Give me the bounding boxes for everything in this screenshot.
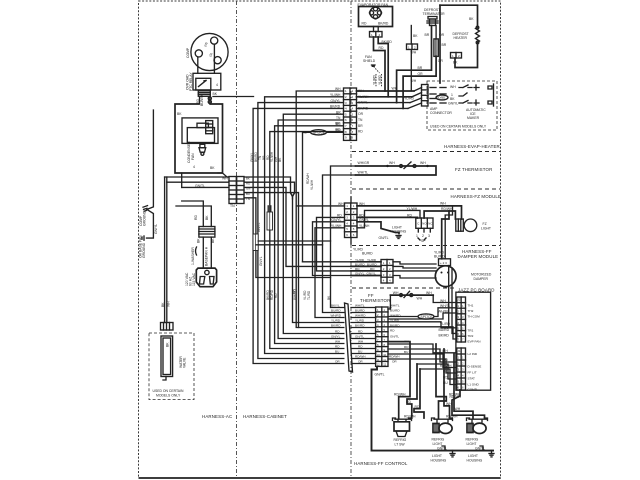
svg-text:BK/RD: BK/RD (331, 323, 341, 327)
svg-text:COMP: COMP (468, 388, 477, 392)
svg-text:J1: J1 (458, 349, 461, 353)
svg-text:C: C (417, 222, 419, 226)
svg-text:DAMPER MODULE: DAMPER MODULE (458, 254, 499, 259)
svg-text:WH/RD: WH/RD (331, 313, 342, 317)
svg-text:REFRIG: REFRIG (466, 438, 479, 442)
wires evap fan down (374, 37, 393, 97)
dashed separator 1 (352, 151, 500, 153)
fan shield (363, 55, 382, 88)
svg-text:WH/TL: WH/TL (440, 304, 451, 308)
damper motor (435, 259, 492, 287)
wire FZ row3 RD to door switch (357, 207, 418, 218)
svg-text:MODELS ONLY: MODELS ONLY (156, 394, 181, 398)
svg-text:OR: OR (358, 359, 363, 363)
svg-text:+ 2 3: + 2 3 (440, 261, 447, 265)
section label HARNESS-CABINET (243, 414, 287, 419)
svg-text:HARNESS-FZ MODULE: HARNESS-FZ MODULE (451, 194, 502, 199)
wires basepan heater feed (176, 201, 211, 227)
svg-text:BK/YL: BK/YL (331, 303, 340, 307)
svg-text:WH: WH (450, 85, 456, 89)
svg-text:LIGHT: LIGHT (467, 442, 477, 446)
wire compressor S terminal to PTC (197, 57, 199, 73)
defrost terminator (423, 8, 446, 26)
svg-text:SPLICE: SPLICE (313, 131, 326, 135)
svg-text:TH2: TH2 (468, 309, 474, 313)
svg-text:BU/RD: BU/RD (331, 308, 341, 312)
svg-text:STAT: STAT (468, 377, 476, 381)
divider harness-cabinet / right sections (350, 1, 352, 478)
svg-text:REFRIG: REFRIG (432, 438, 445, 442)
wire gn/tl ground run (372, 366, 495, 450)
svg-text:RD: RD (335, 329, 340, 333)
section label HARNESS-FF CONTROL (354, 461, 408, 466)
dashed box ice maker (427, 81, 497, 130)
wire BK from PTC to cabinet bundle (213, 96, 254, 98)
svg-text:BU/RD: BU/RD (390, 308, 400, 312)
inline connector bar 1 (267, 206, 273, 230)
svg-text:GN/TL: GN/TL (390, 335, 399, 339)
svg-text:RD/WH: RD/WH (441, 207, 453, 211)
wire FZ row5 YL/WH to door switch (357, 210, 420, 227)
svg-text:RD: RD (335, 128, 340, 132)
svg-text:YL/RD: YL/RD (331, 318, 341, 322)
inline connectors on condenser fan feed (208, 96, 211, 104)
svg-text:J2: J2 (458, 298, 461, 302)
svg-text:LIGHT: LIGHT (433, 442, 443, 446)
svg-text:MAKER: MAKER (467, 116, 480, 120)
svg-text:10: 10 (377, 353, 380, 357)
svg-text:VALVE: VALVE (183, 357, 187, 368)
svg-text:WH: WH (411, 79, 417, 83)
svg-text:WH: WH (442, 349, 448, 353)
svg-text:YL/RD: YL/RD (378, 74, 382, 85)
connector power cord lower (161, 323, 174, 331)
svg-text:GN/TL: GN/TL (195, 184, 205, 188)
svg-text:BR: BR (335, 122, 340, 126)
svg-text:BK: BK (413, 34, 418, 38)
svg-text:HEATER: HEATER (454, 36, 468, 40)
svg-text:4: 4 (216, 83, 218, 87)
wire condenser WH out to connector (218, 173, 229, 177)
connector below PTC (196, 91, 218, 106)
ff thermistor symbol (389, 291, 457, 309)
svg-text:GN/YL: GN/YL (331, 334, 341, 338)
damper connector wires + labels (351, 258, 381, 276)
svg-text:BU/RD: BU/RD (355, 262, 365, 266)
wire FZ row1 WH to bulb (296, 202, 461, 220)
svg-text:RD/WH: RD/WH (394, 393, 406, 397)
svg-text:RD/WH: RD/WH (450, 395, 462, 399)
svg-text:BU/RD: BU/RD (367, 262, 377, 266)
wire condenser to connector row3 (182, 186, 229, 188)
svg-text:PTC RELAY: PTC RELAY (189, 72, 193, 91)
svg-text:LIGHT: LIGHT (432, 454, 442, 458)
svg-text:BK/RD: BK/RD (378, 22, 389, 26)
wires damper connector to motor (393, 262, 436, 278)
svg-text:12: 12 (377, 363, 380, 367)
svg-text:YL/RD: YL/RD (373, 74, 377, 85)
svg-text:YL/RD: YL/RD (355, 258, 365, 262)
svg-text:WH/TL: WH/TL (358, 171, 369, 175)
bu/bk oval label (0, 0, 1, 1)
connector FF control 12x2 (376, 307, 388, 367)
svg-text:DAMPER: DAMPER (474, 277, 489, 281)
svg-text:FF LIT: FF LIT (468, 371, 477, 375)
ff row labels right of parallelogram (355, 303, 366, 363)
svg-text:RD/WH: RD/WH (389, 355, 399, 359)
svg-text:BK/RD: BK/RD (439, 333, 450, 337)
svg-text:COMP: COMP (186, 47, 190, 58)
svg-text:NC: NC (428, 222, 432, 226)
connector FZ module 6x2 (345, 197, 358, 244)
lamp3 refrig light (466, 418, 488, 446)
svg-text:GN/YL: GN/YL (448, 102, 458, 106)
svg-text:REFRIG: REFRIG (394, 438, 407, 442)
wires into amp connector (392, 87, 422, 109)
svg-text:WH: WH (389, 161, 395, 165)
wires damper to PC board J2 (449, 266, 457, 334)
svg-text:WH: WH (426, 291, 432, 295)
ff parallelogram bundle connector (345, 303, 353, 372)
svg-text:YL/WH: YL/WH (331, 224, 342, 228)
svg-text:TN: TN (230, 204, 235, 208)
svg-text:HOUSING: HOUSING (431, 459, 447, 463)
svg-text:GN/YL: GN/YL (259, 256, 263, 266)
svg-text:GN/TL: GN/TL (375, 373, 385, 377)
ice maker switch symbols (459, 84, 494, 106)
svg-text:WH: WH (417, 297, 423, 301)
svg-text:THERMISTOR: THERMISTOR (360, 298, 390, 303)
svg-text:BK: BK (469, 17, 474, 21)
svg-text:EVP FAN: EVP FAN (468, 340, 481, 344)
label fz thermistor (455, 167, 492, 172)
svg-text:GN/YL: GN/YL (332, 218, 342, 222)
svg-text:OR: OR (392, 360, 397, 364)
svg-text:TL/RD: TL/RD (307, 290, 311, 300)
svg-text:L2 IND: L2 IND (468, 352, 478, 356)
svg-text:RD: RD (335, 344, 340, 348)
svg-text:RD: RD (358, 344, 363, 348)
svg-text:CONNECTOR: CONNECTOR (430, 111, 452, 115)
splice on row2 (388, 304, 457, 319)
label harness-fz module (451, 194, 502, 199)
svg-text:LIGHT: LIGHT (468, 454, 478, 458)
cabinet bundle staircase from J-cabinet (253, 91, 344, 364)
svg-text:115 VAC: 115 VAC (192, 272, 196, 286)
svg-text:YL/RD: YL/RD (355, 318, 365, 322)
svg-text:BK: BK (213, 92, 218, 96)
condenser fan shaft (199, 144, 206, 155)
wires FF connector row1 to pc board (388, 299, 446, 309)
wire compressor M terminal to PTC (213, 44, 215, 73)
svg-text:HARNESS-FF CONTROL: HARNESS-FF CONTROL (354, 461, 408, 466)
label harness-ff damper module (458, 249, 499, 259)
svg-text:RD: RD (358, 130, 363, 134)
svg-text:BK: BK (177, 112, 182, 116)
connector J-cabinet left labels (330, 87, 341, 132)
dashed box USED ON CERTAIN MODELS ONLY (water valve) (149, 333, 194, 400)
wire resistor to amp (403, 56, 443, 108)
label harness-evap-heater (444, 144, 500, 149)
svg-text:BU/RD: BU/RD (362, 252, 373, 256)
comp ground branch (139, 110, 159, 258)
ice maker internal dashes (430, 85, 458, 106)
power cord wires (161, 177, 229, 323)
svg-text:WH/TL: WH/TL (390, 303, 400, 307)
svg-text:BR: BR (418, 66, 423, 70)
condenser fan outer box (175, 104, 223, 173)
defrost heater loop (440, 5, 478, 83)
page border (139, 1, 501, 478)
svg-text:TH COM: TH COM (468, 315, 481, 319)
svg-text:OR: OR (335, 359, 340, 363)
svg-text:TH1: TH1 (468, 304, 474, 308)
svg-text:WH: WH (455, 407, 461, 411)
svg-text:RD: RD (194, 215, 198, 220)
fz light bulb (456, 219, 491, 232)
svg-text:WH/RD: WH/RD (355, 313, 366, 317)
svg-text:OR: OR (358, 112, 364, 116)
dashed separator 2 (352, 188, 500, 190)
svg-text:RD: RD (415, 405, 420, 409)
svg-text:RD: RD (406, 400, 411, 404)
label ff thermistor (360, 293, 390, 303)
divider harness-ac / harness-cabinet (236, 1, 238, 478)
label CONDENSER FAN (187, 141, 195, 169)
pc board J2 labels (468, 304, 481, 344)
svg-text:BK/RD: BK/RD (382, 40, 393, 44)
label jazz pc board (458, 288, 495, 293)
FF connector right labels (389, 303, 409, 363)
evaporator fan motor symbol (369, 7, 381, 19)
svg-text:D-SENSE: D-SENSE (468, 365, 482, 369)
svg-text:TERMINATOR: TERMINATOR (423, 12, 446, 16)
svg-text:RD: RD (358, 329, 363, 333)
svg-text:YL/RD: YL/RD (440, 322, 451, 326)
dashed separator 4 (352, 287, 455, 289)
svg-text:MOTORIZED: MOTORIZED (471, 273, 492, 277)
svg-text:RD/WH: RD/WH (355, 354, 365, 358)
svg-text:BK: BK (166, 342, 170, 347)
plug basepan (115 VAC) (185, 268, 217, 287)
svg-text:RD: RD (407, 213, 412, 217)
svg-text:BK: BK (161, 302, 165, 307)
compressor M1 (186, 33, 228, 70)
svg-text:BK: BK (211, 238, 215, 243)
svg-text:GN/YL: GN/YL (355, 272, 365, 276)
dashed separator 3 (352, 245, 500, 247)
svg-text:LT SW: LT SW (395, 443, 406, 447)
svg-text:WH/TL: WH/TL (355, 303, 365, 307)
lights wiring verticals (388, 342, 485, 419)
svg-text:GN/YL: GN/YL (154, 224, 158, 234)
svg-text:BK/RD: BK/RD (355, 323, 365, 327)
connector basepan heater (199, 227, 215, 238)
ff row wires right of parallelogram (351, 308, 376, 364)
svg-text:HOUSING: HOUSING (467, 459, 483, 463)
relay PTC (OVR OAD PTC RELAY) (186, 72, 221, 91)
FZ module connector labels (331, 202, 370, 228)
svg-text:LIGHT: LIGHT (481, 227, 491, 231)
svg-text:GN/TL: GN/TL (257, 222, 261, 232)
fz light housing label + gnd (391, 226, 407, 239)
wires FF connector rows8-11 to pc J1 (388, 344, 457, 385)
condenser fan inner box (182, 118, 218, 143)
svg-text:GROUND: GROUND (142, 242, 146, 258)
svg-text:BU/RD: BU/RD (434, 255, 445, 259)
svg-text:FZ THERMISTOR: FZ THERMISTOR (455, 167, 492, 172)
svg-text:SHIELD: SHIELD (363, 59, 376, 63)
svg-text:L1 GND: L1 GND (468, 383, 480, 387)
svg-text:WH: WH (167, 301, 171, 307)
defrost heater element (453, 26, 480, 44)
svg-text:RD: RD (390, 328, 395, 332)
svg-text:BU/RD: BU/RD (439, 328, 450, 332)
svg-text:BK: BK (197, 238, 201, 243)
svg-text:USED ON CERTAIN MODELS ONLY: USED ON CERTAIN MODELS ONLY (430, 125, 487, 129)
connector 1 2 below evap fan (370, 27, 383, 38)
svg-text:BU: BU (358, 349, 362, 353)
defrost resistor element (434, 26, 445, 57)
svg-text:RD: RD (362, 22, 367, 26)
light housing 1 (431, 446, 456, 463)
light housing 2 (467, 446, 495, 463)
svg-text:BASEPAN H: BASEPAN H (205, 246, 209, 266)
lamp1 refrig lt sw (393, 418, 412, 447)
evaporator fan label (358, 3, 389, 7)
wires J-cabinet right side rows 1-4 (357, 91, 415, 108)
svg-text:WH/BU: WH/BU (438, 309, 450, 313)
fz thermistor circuit (356, 161, 437, 175)
svg-text:BK: BK (450, 97, 455, 101)
connector 1 2 evap-heater branch (407, 26, 419, 92)
svg-text:WH: WH (222, 177, 228, 181)
wire condenser box left down (181, 173, 183, 187)
svg-text:4: 4 (193, 165, 195, 169)
svg-text:WH: WH (392, 87, 398, 91)
svg-text:TR2: TR2 (468, 334, 474, 338)
connector 1 2 defrost heater (451, 53, 462, 59)
svg-text:BR: BR (358, 124, 363, 128)
svg-text:FAN: FAN (191, 153, 195, 160)
svg-text:RD: RD (355, 267, 360, 271)
svg-text:WH: WH (440, 202, 446, 206)
connector J-cabinet right labels (358, 89, 369, 134)
svg-text:11: 11 (377, 358, 380, 362)
svg-text:10: 10 (383, 353, 386, 357)
wires cabinet-left block to bundle (245, 177, 352, 328)
ff row labels left of parallelogram (331, 303, 342, 363)
svg-text:HOUSING: HOUSING (391, 230, 407, 234)
connector damper 4x2 (381, 260, 393, 284)
svg-text:WH: WH (358, 339, 363, 343)
svg-text:WH: WH (393, 291, 399, 295)
svg-text:GN/TL: GN/TL (355, 334, 364, 338)
wire door switch NO to bulb (0, 0, 1, 1)
svg-text:WH: WH (335, 339, 340, 343)
svg-text:2: 2 (422, 234, 424, 238)
condenser fan motor (187, 121, 214, 143)
pc board J2 connector (457, 297, 466, 342)
svg-text:TN: TN (358, 118, 363, 122)
connector AC left block (195, 177, 236, 209)
wires to damper rows (303, 217, 352, 317)
wire FZ row4 GN/YL to light housing gnd (357, 222, 399, 240)
svg-text:BK: BK (210, 166, 215, 170)
svg-text:YL/WH: YL/WH (310, 179, 314, 190)
harness merge arrow (291, 194, 294, 200)
lamp2 refrig light (432, 418, 453, 446)
cabinet horizontal wires mid (256, 241, 331, 245)
jazz pc board box (456, 292, 491, 390)
svg-text:WH: WH (411, 51, 417, 55)
amp connector strip (422, 85, 429, 107)
svg-text:RD/BD: RD/BD (437, 96, 446, 100)
svg-text:WH: WH (420, 161, 426, 165)
svg-text:HARNESS-AC: HARNESS-AC (202, 414, 232, 419)
svg-text:1-WASHER: 1-WASHER (191, 247, 195, 265)
svg-text:FZ: FZ (483, 222, 487, 226)
pc board J1 connector (457, 348, 466, 390)
svg-text:HARNESS-CABINET: HARNESS-CABINET (243, 414, 287, 419)
wire terminator left lead (397, 26, 432, 103)
connector cabinet-left block (237, 177, 251, 204)
svg-text:BK: BK (205, 215, 209, 220)
wires FF rows3-5 to pc J2 (388, 309, 457, 339)
evaporator fan box (359, 7, 393, 27)
svg-text:GN/YL: GN/YL (367, 272, 377, 276)
connector J-cabinet 9x2 (344, 88, 357, 140)
svg-text:BU/RD: BU/RD (355, 308, 365, 312)
fz door switch (416, 218, 433, 243)
svg-text:RD: RD (370, 267, 375, 271)
water valve (161, 336, 187, 380)
basepan heater leads (191, 237, 215, 268)
wires YL/RD BU/RD from fz section to damper top (353, 206, 453, 259)
svg-text:GN/TL: GN/TL (379, 236, 389, 240)
inline connector bar 2 (253, 234, 258, 251)
svg-text:RD: RD (379, 46, 384, 50)
section label HARNESS-AC (202, 414, 232, 419)
pc board J1 labels (468, 352, 482, 392)
svg-text:12: 12 (383, 363, 386, 367)
svg-text:OR: OR (418, 72, 424, 76)
svg-text:USED ON CERTAIN: USED ON CERTAIN (153, 389, 185, 393)
svg-text:WH/GR: WH/GR (358, 161, 370, 165)
svg-text:3: 3 (428, 234, 430, 238)
wires fz thermistor to bundle (323, 166, 356, 313)
splice RD (302, 122, 344, 262)
bundle rotated labels (250, 151, 331, 300)
svg-text:BR: BR (442, 43, 447, 47)
svg-text:TR1: TR1 (468, 329, 474, 333)
svg-text:RD: RD (337, 213, 342, 217)
svg-text:WH: WH (440, 299, 446, 303)
wire PTC to condenser box left (199, 96, 201, 104)
svg-text:RD: RD (274, 293, 278, 298)
svg-text:BK: BK (453, 61, 458, 65)
svg-text:HARNESS-EVAP-HEATER: HARNESS-EVAP-HEATER (444, 144, 500, 149)
svg-text:BR: BR (425, 33, 430, 37)
svg-text:GROUND: GROUND (143, 210, 147, 226)
svg-text:YL/RD: YL/RD (367, 258, 377, 262)
svg-text:BU: BU (335, 349, 339, 353)
svg-text:BU/WH: BU/WH (200, 94, 204, 106)
